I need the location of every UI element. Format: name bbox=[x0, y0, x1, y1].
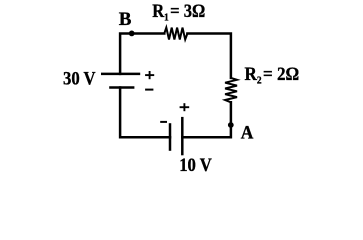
wire: from 10V battery − plate to bottom-left corner and up to 30V battery − plate bbox=[120, 88, 170, 138]
wire: from R2 bottom through node A to bottom-right corner and left to 10V battery + plate bbox=[182, 102, 231, 137]
svg-text:B: B bbox=[119, 9, 132, 30]
svg-text:10 V: 10 V bbox=[179, 154, 212, 175]
wire: from R1 right end to top-right corner and down to R2 top bbox=[187, 34, 231, 78]
svg-text:A: A bbox=[241, 122, 254, 143]
node A: junction dot bbox=[228, 122, 234, 128]
battery 30 V: − polarity mark bbox=[145, 89, 153, 91]
battery 10 V: + polarity mark bbox=[180, 103, 190, 111]
wire: left side from 30V battery + plate up to corner B and along top to R1 bbox=[120, 34, 164, 74]
battery 30 V: long plate (+) bbox=[101, 73, 140, 76]
resistor R2 (2Ω, vertical zigzag, right wire) bbox=[225, 78, 237, 102]
battery 10 V: long plate (+) bbox=[181, 117, 184, 155]
svg-text:30 V: 30 V bbox=[63, 68, 96, 89]
battery 10 V: short plate (−) bbox=[169, 123, 172, 151]
svg-text:R2 = 2Ω: R2 = 2Ω bbox=[245, 63, 300, 87]
node B: junction dot bbox=[129, 31, 135, 37]
resistor R1 (3Ω, horizontal zigzag, top wire) bbox=[164, 28, 187, 40]
battery 30 V: + polarity mark bbox=[145, 71, 154, 79]
battery 30 V: short plate (−) bbox=[109, 86, 134, 89]
battery 10 V: − polarity mark bbox=[160, 121, 167, 123]
svg-text:R1 = 3Ω: R1 = 3Ω bbox=[152, 0, 205, 24]
